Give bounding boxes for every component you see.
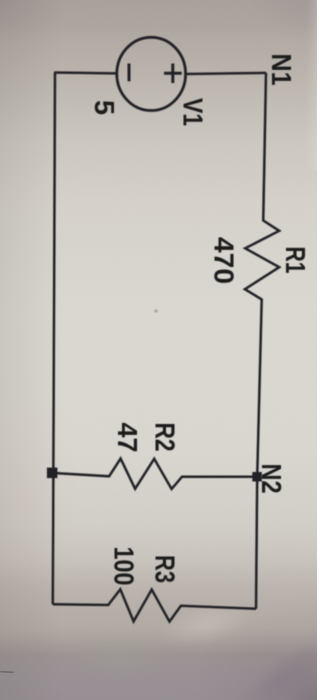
minus sign bbox=[128, 64, 131, 82]
wire middle row with resistor R2 zigzag bbox=[53, 459, 257, 489]
svg-text:470: 470 bbox=[209, 237, 240, 284]
plus sign bbox=[164, 64, 182, 84]
wire bottom edge with resistor R3 zigzag bbox=[53, 589, 256, 621]
svg-text:R2: R2 bbox=[150, 423, 181, 452]
svg-text:47: 47 bbox=[112, 423, 143, 453]
wire top edge right of source bbox=[187, 73, 266, 74]
svg-text:5: 5 bbox=[89, 100, 120, 115]
node junction square N2 bbox=[252, 472, 261, 482]
svg-text:R3: R3 bbox=[150, 555, 181, 583]
wire top edge left of source bbox=[54, 71, 115, 74]
wire right edge with resistor R1 zigzag bbox=[245, 73, 279, 609]
svg-text:N1: N1 bbox=[266, 54, 297, 86]
node junction square left bbox=[47, 468, 58, 479]
svg-text:N2: N2 bbox=[256, 464, 287, 494]
svg-text:R1: R1 bbox=[280, 247, 311, 274]
svg-text:100: 100 bbox=[109, 547, 140, 586]
wire left edge bbox=[53, 73, 55, 605]
voltage source V1 circle bbox=[117, 37, 186, 110]
dust speck bbox=[154, 309, 157, 312]
stray line bottom left bbox=[0, 671, 14, 672]
svg-text:V1: V1 bbox=[178, 98, 209, 126]
